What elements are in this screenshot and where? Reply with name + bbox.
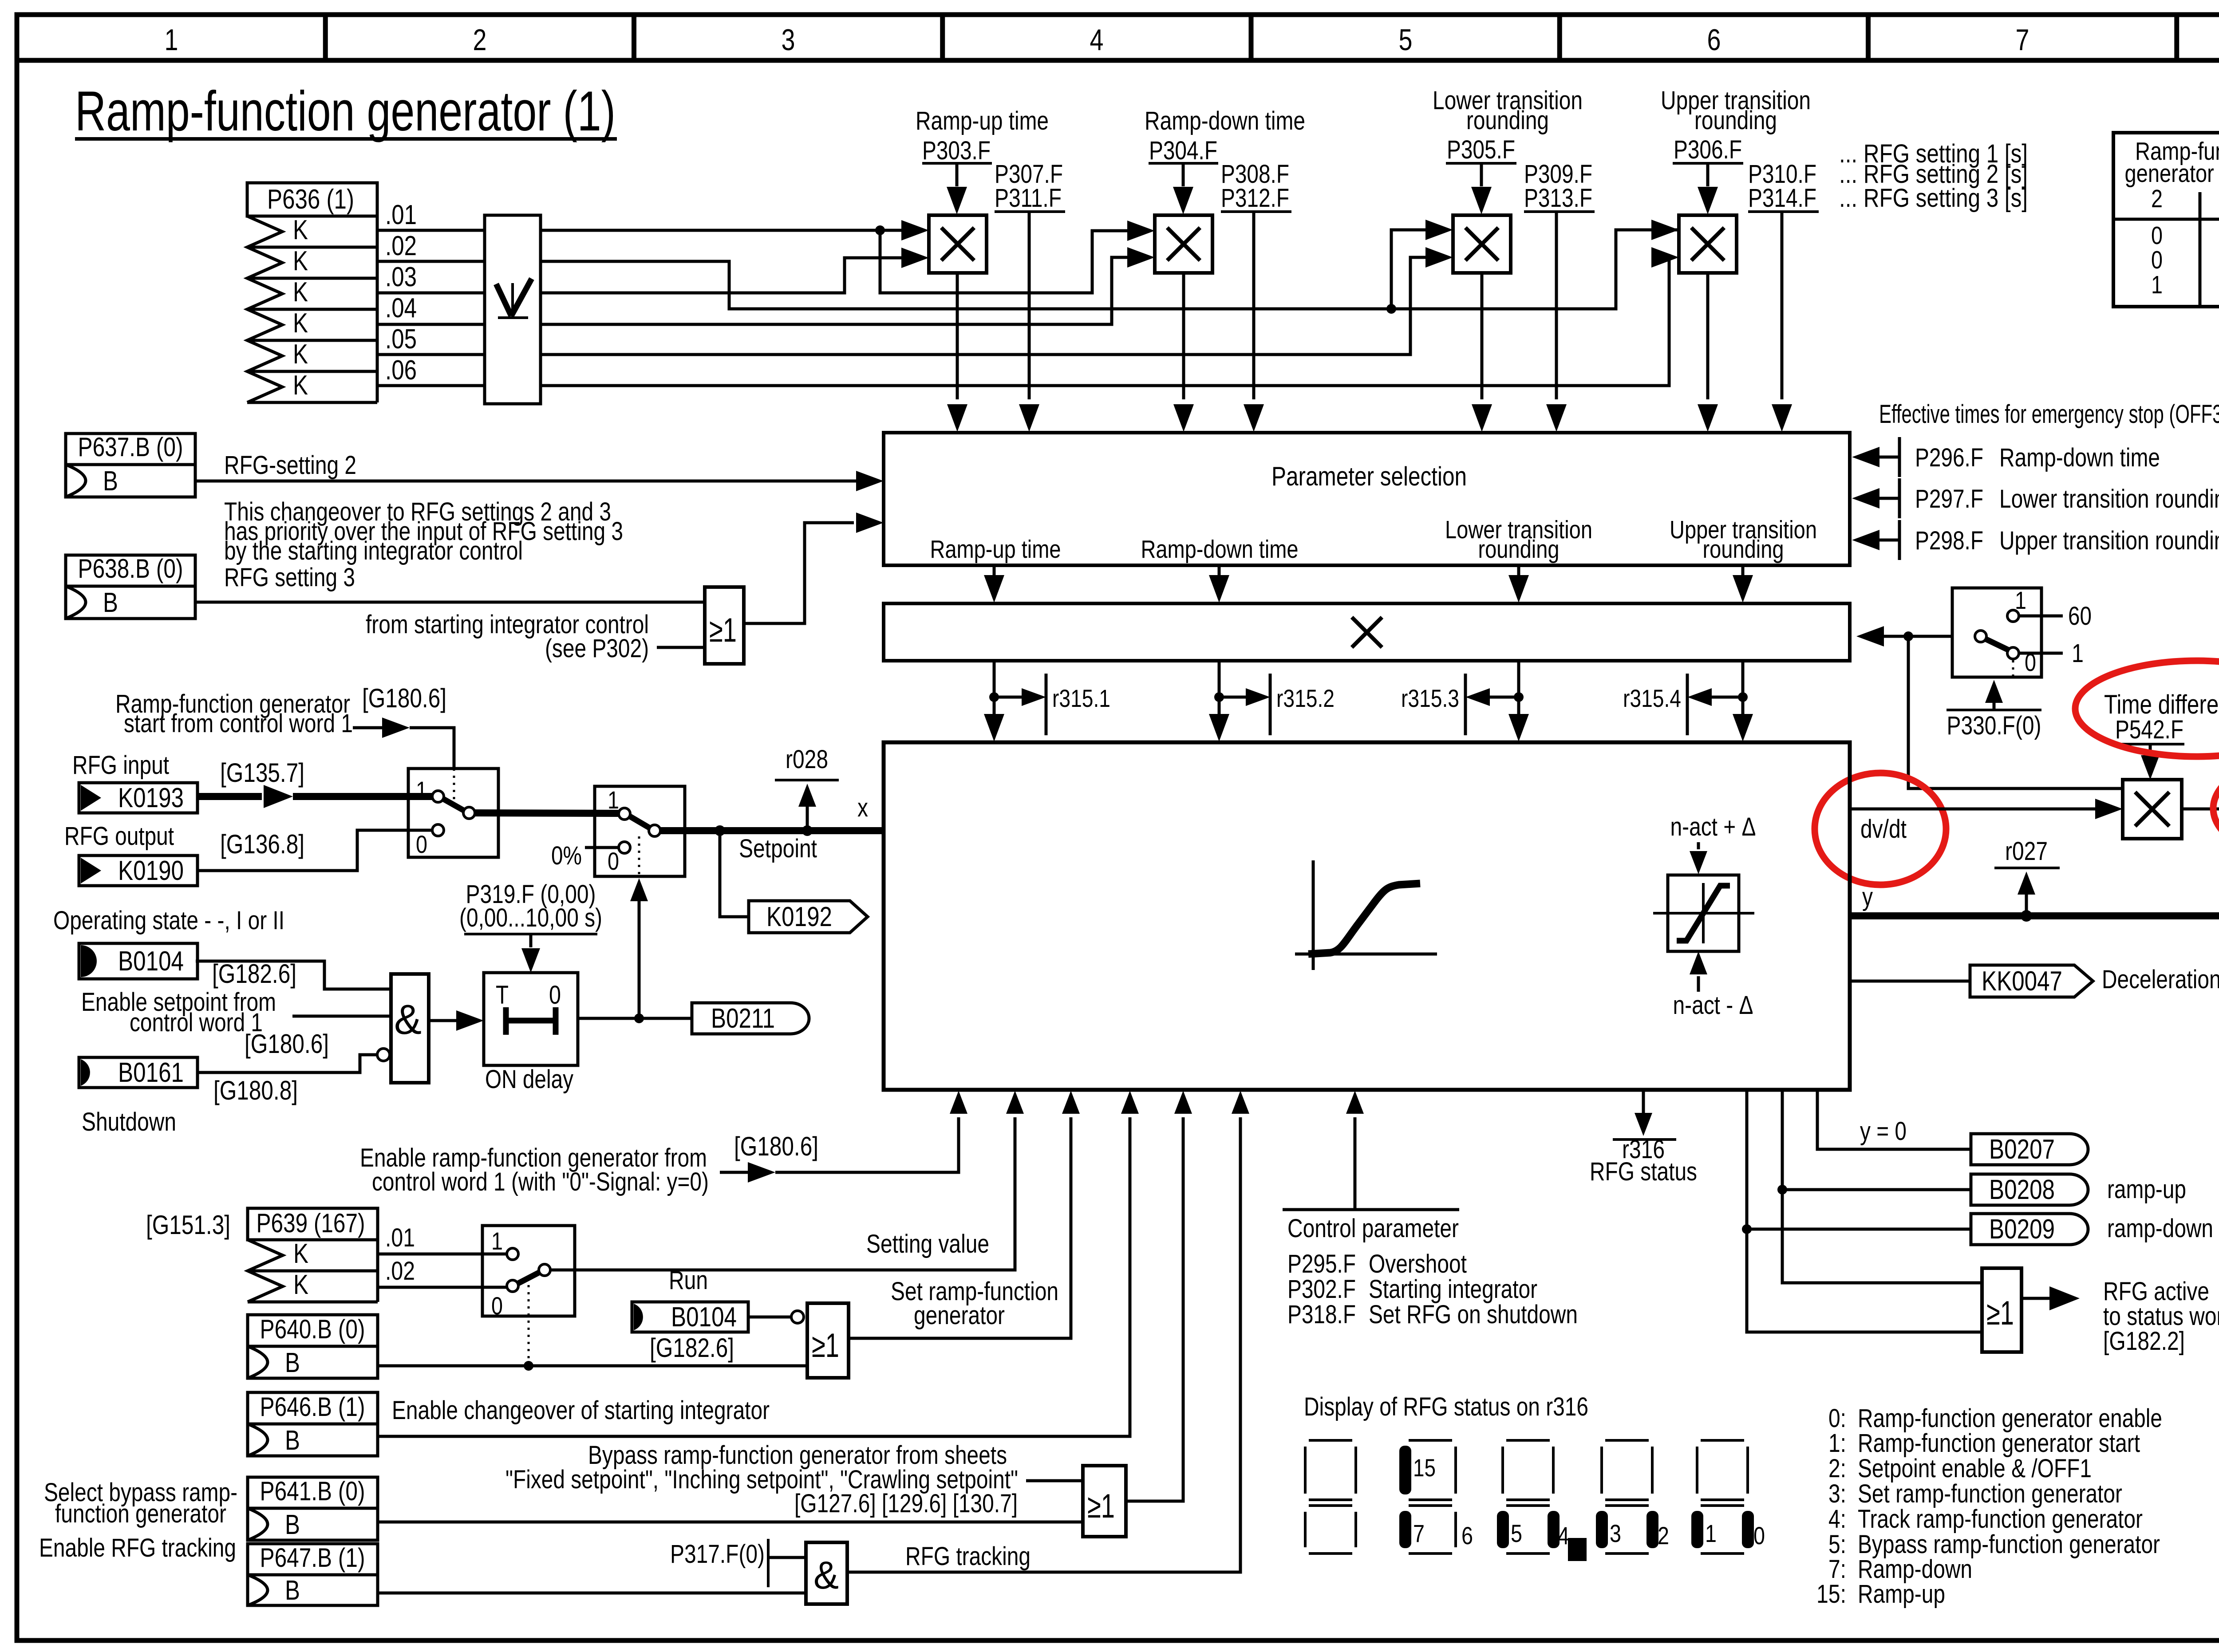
svg-text:generator: generator bbox=[914, 1301, 1005, 1330]
switch P330 time base bbox=[1952, 586, 2092, 677]
svg-text:Ramp-function generator start: Ramp-function generator start bbox=[1858, 1429, 2140, 1458]
svg-text:B0208: B0208 bbox=[1989, 1175, 2055, 1205]
svg-text:1: 1 bbox=[608, 786, 619, 814]
wire P639.01 to switch3 bbox=[378, 1253, 507, 1256]
svg-text:6: 6 bbox=[1461, 1522, 1473, 1549]
label RFG start from control word 1 bbox=[115, 690, 353, 738]
svg-text:Set ramp-function generator: Set ramp-function generator bbox=[1858, 1479, 2122, 1508]
svg-text:2: 2 bbox=[473, 23, 487, 57]
OR gate RFG active bbox=[1982, 1268, 2022, 1352]
svg-text:Ramp-up time: Ramp-up time bbox=[930, 535, 1061, 564]
input connector K0193 bbox=[79, 783, 197, 813]
svg-text:P317.F(0): P317.F(0) bbox=[670, 1540, 765, 1569]
label G151.3 bbox=[146, 1210, 230, 1240]
output connector KK0047 bbox=[1970, 965, 2093, 997]
output connector B0211 bbox=[692, 1003, 809, 1034]
svg-text:RFG-setting 2: RFG-setting 2 bbox=[224, 451, 356, 480]
svg-text:n-act - Δ: n-act - Δ bbox=[1673, 991, 1753, 1020]
svg-text:generator setting: generator setting bbox=[2125, 159, 2219, 188]
svg-text:B0161: B0161 bbox=[118, 1057, 184, 1088]
connector P641.B bbox=[248, 1476, 378, 1540]
svg-text:1: 1 bbox=[416, 776, 427, 804]
svg-text:7: 7 bbox=[2016, 23, 2029, 57]
wire .02 to mult3 and mult4 bbox=[541, 220, 1679, 314]
svg-text:start from control word 1: start from control word 1 bbox=[124, 709, 353, 738]
svg-text:60: 60 bbox=[2068, 602, 2092, 631]
output connector K0192 bbox=[749, 901, 868, 933]
svg-text:P298.F: P298.F bbox=[1915, 526, 1983, 555]
svg-text:Setpoint enable & /OFF1: Setpoint enable & /OFF1 bbox=[1858, 1454, 2092, 1483]
input connector B0104 bbox=[79, 943, 197, 979]
wire B0104 to AND bbox=[196, 961, 391, 989]
svg-text:RFG output: RFG output bbox=[64, 822, 174, 851]
svg-text:K: K bbox=[293, 308, 308, 339]
svg-text:Parameter selection: Parameter selection bbox=[1271, 461, 1467, 491]
parameters P310.F P314.F bbox=[1748, 160, 1819, 432]
wire RFG active output bbox=[2022, 1286, 2080, 1310]
column numbers bbox=[165, 23, 2219, 57]
label Enable RFG tracking bbox=[39, 1534, 236, 1562]
svg-text:1: 1 bbox=[2151, 271, 2163, 299]
switch1 RFG start bbox=[408, 769, 498, 858]
svg-text:P639 (167): P639 (167) bbox=[257, 1208, 365, 1238]
svg-text:&: & bbox=[813, 1553, 839, 1597]
label G180.8 bbox=[213, 1076, 298, 1105]
svg-text:B0209: B0209 bbox=[1989, 1214, 2055, 1245]
svg-text:K: K bbox=[293, 339, 308, 370]
label Setting value bbox=[866, 1230, 989, 1258]
label RFG active bbox=[2103, 1277, 2219, 1356]
wire switch1 to switch2 thick bbox=[475, 813, 619, 813]
svg-text:5: 5 bbox=[1399, 23, 1413, 57]
input connector K0190 bbox=[79, 856, 197, 886]
svg-text:[G127.6] [129.6] [130.7]: [G127.6] [129.6] [130.7] bbox=[794, 1489, 1018, 1518]
multiplier mult1 bbox=[929, 215, 987, 273]
wire control parameter to block bbox=[1346, 1091, 1364, 1210]
note changeover priority bbox=[224, 497, 623, 565]
svg-text:P646.B (1): P646.B (1) bbox=[260, 1392, 365, 1422]
svg-text:2: 2 bbox=[1658, 1522, 1669, 1549]
svg-text:Time difference [s]: Time difference [s] bbox=[2104, 690, 2219, 719]
svg-text:rounding: rounding bbox=[1694, 106, 1777, 135]
svg-text:K: K bbox=[293, 277, 308, 308]
title Ramp-function generator (1) bbox=[75, 79, 617, 142]
parameter P305.F bbox=[1446, 135, 1516, 214]
red ellipse dv/dt bbox=[1815, 773, 1946, 885]
label G182.6 bottom bbox=[650, 1333, 734, 1363]
wire .06 to mult4 input 2 bbox=[541, 247, 1679, 386]
label Ramp-down time bbox=[1145, 106, 1305, 135]
svg-text:0: 0 bbox=[608, 847, 619, 875]
label Setpoint bbox=[739, 834, 817, 863]
svg-text:y: y bbox=[1862, 883, 1873, 911]
svg-text:Ramp-function generator (1): Ramp-function generator (1) bbox=[75, 79, 616, 142]
seven-segment status cells upper bbox=[1305, 1440, 1748, 1500]
label Shutdown bbox=[82, 1108, 176, 1136]
svg-text:P295.F: P295.F bbox=[1287, 1250, 1356, 1278]
wire B0104 to OR set inverted bbox=[748, 1311, 804, 1323]
svg-text:RFG tracking: RFG tracking bbox=[905, 1542, 1031, 1571]
svg-text:B0104: B0104 bbox=[118, 946, 184, 977]
svg-text:B0207: B0207 bbox=[1989, 1134, 2055, 1165]
svg-text:rounding: rounding bbox=[1703, 535, 1784, 564]
multiplier dv/dt x time bbox=[2123, 780, 2182, 839]
wire enable changeover to block bbox=[378, 1091, 1139, 1436]
svg-text:K: K bbox=[293, 1238, 308, 1269]
label ramp-down bbox=[2107, 1214, 2213, 1243]
minimum-selection block bbox=[485, 215, 541, 404]
svg-text:KK0047: KK0047 bbox=[1982, 966, 2062, 997]
svg-text:3:: 3: bbox=[1828, 1479, 1846, 1508]
wire bypass quoted to OR bbox=[1026, 1479, 1083, 1482]
svg-text:Control parameter: Control parameter bbox=[1287, 1214, 1459, 1243]
svg-text:[G180.6]: [G180.6] bbox=[734, 1132, 818, 1161]
svg-text:r027: r027 bbox=[2005, 837, 2048, 866]
label enable RFG from control word 1 bbox=[360, 1143, 709, 1196]
label Upper transition rounding bbox=[1661, 86, 1811, 135]
label RFG tracking bbox=[905, 1542, 1031, 1571]
wire .01 to mult1 and mult2 bbox=[541, 220, 1155, 293]
svg-text:1: 1 bbox=[1705, 1519, 1717, 1547]
svg-text:control word 1: control word 1 bbox=[130, 1008, 263, 1037]
label Enable setpoint from control word 1 bbox=[81, 988, 276, 1037]
parameter P306.F bbox=[1673, 135, 1743, 214]
display r028 bbox=[775, 745, 839, 831]
wire ramp-down to B0209 and OR bbox=[1742, 1090, 1982, 1332]
input connector B0104 run bbox=[632, 1302, 748, 1333]
svg-text:rounding: rounding bbox=[1478, 535, 1560, 564]
seven-segment status cells lower bbox=[1305, 1506, 1765, 1561]
label ON delay bbox=[485, 1065, 573, 1094]
svg-text:P647.B (1): P647.B (1) bbox=[260, 1543, 365, 1573]
wire setting value to block bbox=[551, 1091, 1024, 1270]
svg-text:15: 15 bbox=[1413, 1454, 1436, 1482]
label RFG input bbox=[72, 751, 169, 780]
svg-text:x: x bbox=[857, 793, 868, 822]
wire switch branch to dv-dt multiplier bbox=[1908, 636, 2123, 789]
parameters P307.F P311.F bbox=[995, 160, 1065, 432]
label Ramp-up time bbox=[916, 106, 1049, 135]
connector P646.B bbox=[248, 1392, 378, 1456]
svg-text:B0104: B0104 bbox=[671, 1302, 737, 1333]
wire switch to multiplier bus bbox=[1856, 626, 1952, 647]
connector P637.B bbox=[66, 432, 195, 497]
svg-text:B: B bbox=[285, 1575, 300, 1606]
svg-text:K0190: K0190 bbox=[118, 856, 184, 886]
wire mult1 output bbox=[947, 273, 967, 432]
svg-text:P311.F: P311.F bbox=[995, 184, 1062, 213]
svg-text:Ramp-down time: Ramp-down time bbox=[1145, 106, 1305, 135]
svg-text:Overshoot: Overshoot bbox=[1369, 1250, 1467, 1278]
svg-text:P305.F: P305.F bbox=[1447, 135, 1515, 164]
connector P647.B bbox=[248, 1543, 378, 1606]
label G136.8 bbox=[220, 829, 304, 859]
wire mult3 output bbox=[1472, 273, 1492, 432]
svg-text:Operating state - -, I or II: Operating state - -, I or II bbox=[53, 906, 284, 935]
svg-text:[G135.7]: [G135.7] bbox=[220, 758, 304, 788]
label effective times OFF3 bbox=[1879, 400, 2219, 429]
label G135.7 bbox=[220, 758, 304, 788]
svg-text:Ramp-up: Ramp-up bbox=[1858, 1580, 1945, 1609]
svg-text:[G180.6]: [G180.6] bbox=[245, 1029, 329, 1059]
connector P640.B bbox=[248, 1314, 378, 1378]
wire ON delay to B0211 and switch2 bbox=[578, 878, 692, 1023]
svg-text:P303.F: P303.F bbox=[922, 136, 991, 165]
svg-text:0%: 0% bbox=[551, 841, 582, 870]
svg-text:[G180.6]: [G180.6] bbox=[362, 683, 446, 713]
svg-text:P296.F: P296.F bbox=[1915, 443, 1983, 472]
svg-text:≥1: ≥1 bbox=[1087, 1487, 1115, 1525]
svg-text:K: K bbox=[293, 370, 308, 401]
label G180.6 top bbox=[362, 683, 446, 713]
svg-text:(see P302): (see P302) bbox=[545, 634, 649, 663]
wires parameter selection outputs bbox=[984, 565, 1753, 603]
svg-text:P636 (1): P636 (1) bbox=[267, 184, 354, 215]
label 0 percent bbox=[551, 841, 619, 870]
label Enable changeover of starting integrator bbox=[392, 1396, 770, 1425]
svg-text:[G182.2]: [G182.2] bbox=[2103, 1327, 2185, 1356]
note Time difference bbox=[2104, 690, 2219, 744]
svg-text:[G182.6]: [G182.6] bbox=[650, 1333, 734, 1363]
multiplier mult2 bbox=[1155, 215, 1212, 273]
label ramp-up bbox=[2107, 1175, 2186, 1204]
output connector B0207 bbox=[1971, 1134, 2088, 1165]
svg-text:Ramp-down time: Ramp-down time bbox=[1141, 535, 1299, 564]
svg-text:Setting value: Setting value bbox=[866, 1230, 989, 1258]
svg-text:3: 3 bbox=[1610, 1519, 1621, 1547]
svg-text:[G180.8]: [G180.8] bbox=[213, 1076, 298, 1105]
svg-text:K: K bbox=[293, 246, 308, 276]
svg-text:1: 1 bbox=[165, 23, 178, 57]
wire dv/dt to multiplier bbox=[1850, 799, 2123, 819]
svg-text:B: B bbox=[285, 1510, 300, 1540]
label Operating state bbox=[53, 906, 284, 935]
wire P647 to AND tracking bbox=[378, 1592, 806, 1595]
label Set ramp-function generator bbox=[891, 1277, 1058, 1330]
limiter block bbox=[1653, 875, 1754, 951]
switch3 setting value select bbox=[482, 1226, 575, 1366]
OR gate bypass bbox=[1083, 1466, 1126, 1537]
svg-text:4: 4 bbox=[1090, 23, 1104, 57]
svg-text:6: 6 bbox=[1707, 23, 1721, 57]
svg-text:1: 1 bbox=[491, 1227, 503, 1255]
label Lower transition rounding bbox=[1433, 86, 1583, 135]
svg-text:Display of RFG status on r316: Display of RFG status on r316 bbox=[1304, 1392, 1588, 1421]
main ramp-function generator block bbox=[884, 742, 1850, 1090]
svg-text:0: 0 bbox=[2151, 246, 2163, 274]
parameters P308.F P312.F bbox=[1221, 160, 1291, 432]
svg-text:P297.F: P297.F bbox=[1915, 485, 1983, 513]
wire enable to block bbox=[720, 1091, 967, 1183]
wire P640 to OR set bbox=[378, 1361, 807, 1371]
svg-text:rounding: rounding bbox=[1466, 106, 1549, 135]
svg-text:P318.F: P318.F bbox=[1287, 1300, 1356, 1329]
svg-text:0: 0 bbox=[1753, 1522, 1765, 1549]
svg-text:.03: .03 bbox=[385, 262, 417, 292]
svg-text:Enable RFG tracking: Enable RFG tracking bbox=[39, 1534, 236, 1562]
list control parameters bbox=[1287, 1250, 1578, 1329]
display r027 bbox=[1994, 837, 2060, 916]
svg-text:B: B bbox=[103, 466, 118, 497]
AND gate setpoint enable bbox=[391, 974, 429, 1083]
svg-text:B: B bbox=[285, 1348, 300, 1378]
control parameter bracket bbox=[1283, 1210, 1459, 1243]
output connector B0208 bbox=[1971, 1174, 2088, 1205]
ramp curve symbol bbox=[1295, 860, 1437, 970]
svg-text:dv/dt: dv/dt bbox=[1860, 815, 1907, 844]
wire RFG tracking to block bbox=[847, 1091, 1249, 1572]
table effective parameters bbox=[2113, 133, 2219, 307]
connector P638.B bbox=[66, 554, 195, 619]
svg-text:0: 0 bbox=[416, 830, 427, 858]
svg-text:Track ramp-function generator: Track ramp-function generator bbox=[1858, 1505, 2143, 1534]
wire P641 to OR bypass bbox=[378, 1521, 1083, 1524]
svg-text:... RFG setting 3 [s]: ... RFG setting 3 [s] bbox=[1839, 184, 2028, 213]
AND gate tracking bbox=[806, 1542, 847, 1604]
wire P637 to parameter selection bbox=[195, 471, 884, 491]
svg-text:P638.B (0): P638.B (0) bbox=[78, 554, 183, 584]
svg-text:B0211: B0211 bbox=[711, 1003, 775, 1034]
wire K0193 thick to switch1 bbox=[197, 785, 432, 808]
ON delay block bbox=[484, 973, 578, 1065]
label bypass from sheets bbox=[505, 1441, 1018, 1518]
wire y output thick bbox=[1850, 910, 2219, 922]
svg-text:P313.F: P313.F bbox=[1524, 184, 1592, 213]
input connector B0161 bbox=[79, 1057, 197, 1088]
label RFG output bbox=[64, 822, 174, 851]
svg-text:P314.F: P314.F bbox=[1748, 184, 1816, 213]
svg-text:[G136.8]: [G136.8] bbox=[220, 829, 304, 859]
label Deceleration distance bbox=[2102, 965, 2219, 994]
svg-text:.01: .01 bbox=[385, 1223, 415, 1252]
svg-text:r315.4: r315.4 bbox=[1623, 684, 1681, 712]
label y bbox=[1862, 883, 1873, 911]
svg-text:Lower transition rounding: Lower transition rounding bbox=[1999, 485, 2219, 513]
wire ramp-up to B0208 and OR bbox=[1777, 1090, 1982, 1283]
svg-text:2: 2 bbox=[2151, 185, 2163, 213]
svg-text:0: 0 bbox=[491, 1292, 503, 1320]
svg-text:P637.B (0): P637.B (0) bbox=[78, 432, 183, 462]
svg-text:r315.2: r315.2 bbox=[1276, 684, 1335, 712]
label n-act minus delta bbox=[1673, 951, 1753, 1020]
svg-text:.02: .02 bbox=[385, 231, 417, 261]
wire set-RFG to block bbox=[849, 1091, 1080, 1338]
parameter P297.F lower transition rounding bbox=[1852, 478, 2219, 518]
svg-text:n-act + Δ: n-act + Δ bbox=[1670, 812, 1756, 841]
svg-text:B: B bbox=[103, 587, 118, 618]
multiplier mult4 bbox=[1679, 215, 1737, 273]
svg-text:RFG input: RFG input bbox=[72, 751, 169, 780]
connector P636 bbox=[247, 183, 377, 402]
wire B0161 to AND inverted bbox=[197, 1049, 390, 1072]
red ellipse K0191 bbox=[2213, 749, 2219, 868]
svg-text:Run: Run bbox=[669, 1266, 708, 1295]
svg-text:Starting integrator: Starting integrator bbox=[1369, 1275, 1537, 1304]
svg-text:K: K bbox=[293, 1270, 308, 1300]
label G182.6 left bbox=[212, 959, 296, 989]
svg-text:Effective times for emergency: Effective times for emergency stop (OFF3… bbox=[1879, 400, 2219, 429]
svg-text:Setpoint: Setpoint bbox=[739, 834, 817, 863]
wire P542 to multiplier bbox=[2141, 744, 2160, 780]
connector P639 bbox=[248, 1208, 378, 1302]
svg-text:K0193: K0193 bbox=[118, 783, 184, 813]
svg-text:Shutdown: Shutdown bbox=[82, 1108, 176, 1136]
display r316 bbox=[1590, 1090, 1697, 1186]
svg-text:P330.F(0): P330.F(0) bbox=[1947, 711, 2041, 740]
svg-text:.01: .01 bbox=[385, 200, 417, 230]
svg-text:y = 0: y = 0 bbox=[1860, 1117, 1907, 1146]
svg-text:3: 3 bbox=[782, 23, 795, 57]
wires P636 to selector bbox=[377, 230, 485, 386]
parameter P298.F upper transition rounding bbox=[1852, 520, 2219, 560]
parameter P330.F(0) bbox=[1947, 680, 2041, 740]
svg-text:RFG setting 3: RFG setting 3 bbox=[224, 563, 355, 592]
svg-text:Upper transition rounding: Upper transition rounding bbox=[1999, 526, 2219, 555]
svg-text:[G151.3]: [G151.3] bbox=[146, 1210, 230, 1240]
svg-text:1:: 1: bbox=[1828, 1429, 1846, 1458]
switch2 setpoint enable bbox=[595, 786, 685, 876]
label from starting integrator control bbox=[366, 610, 649, 663]
svg-text:RFG status: RFG status bbox=[1590, 1157, 1697, 1186]
svg-text:4: 4 bbox=[1558, 1522, 1569, 1549]
svg-text:7: 7 bbox=[1413, 1519, 1425, 1547]
OR gate set RFG bbox=[807, 1303, 849, 1378]
wire KK0047 bbox=[1850, 980, 1970, 983]
svg-text:P640.B (0): P640.B (0) bbox=[260, 1314, 365, 1344]
svg-text:ramp-up: ramp-up bbox=[2107, 1175, 2186, 1204]
wire bypass to block bbox=[1126, 1091, 1192, 1501]
label Run bbox=[669, 1266, 708, 1295]
list RFG status bits bbox=[1816, 1404, 2162, 1609]
svg-text:Set RFG on shutdown: Set RFG on shutdown bbox=[1369, 1300, 1578, 1329]
svg-text:[G182.6]: [G182.6] bbox=[212, 959, 296, 989]
svg-text:by the starting integrator con: by the starting integrator control bbox=[224, 536, 523, 565]
wire setpoint x thick bbox=[660, 793, 884, 836]
svg-text:r315.1: r315.1 bbox=[1052, 684, 1110, 712]
svg-text:≥1: ≥1 bbox=[1986, 1294, 2014, 1332]
parameter P304.F bbox=[1149, 136, 1218, 214]
wire P638 to OR gate bbox=[195, 601, 705, 604]
wire enable setpoint to AND bbox=[292, 1015, 391, 1018]
label n-act plus delta bbox=[1670, 812, 1756, 874]
wire .05 to mult3 input 2 bbox=[541, 247, 1453, 355]
svg-text:K0192: K0192 bbox=[766, 902, 832, 932]
svg-text:(0,00...10,00 s): (0,00...10,00 s) bbox=[459, 903, 602, 932]
svg-text:1: 1 bbox=[2072, 639, 2084, 668]
label Select bypass RFG bbox=[44, 1478, 237, 1528]
wire mult2 output bbox=[1173, 273, 1194, 432]
svg-text:B: B bbox=[285, 1425, 300, 1456]
svg-text:Deceleration distance: Deceleration distance bbox=[2102, 965, 2219, 994]
svg-text:5: 5 bbox=[1511, 1519, 1522, 1547]
wire dv/dt output to K0191 bbox=[2182, 808, 2219, 811]
wire to K0192 bbox=[720, 831, 749, 917]
svg-text:ON delay: ON delay bbox=[485, 1065, 573, 1094]
svg-text:ramp-down: ramp-down bbox=[2107, 1214, 2213, 1243]
svg-text:Ramp-down time: Ramp-down time bbox=[1999, 443, 2160, 472]
labels RFG setting 1 2 3 bbox=[1839, 139, 2028, 213]
svg-text:P302.F: P302.F bbox=[1287, 1275, 1356, 1304]
svg-text:0: 0 bbox=[549, 981, 561, 1009]
wires r315 display taps bbox=[984, 661, 1753, 741]
svg-text:P641.B (0): P641.B (0) bbox=[260, 1476, 365, 1506]
output connector B0209 bbox=[1971, 1214, 2088, 1245]
wire y=0 to B0207 bbox=[1817, 1090, 1971, 1149]
wire mult4 output bbox=[1698, 273, 1718, 432]
P639 index labels bbox=[385, 1223, 415, 1285]
svg-text:.04: .04 bbox=[385, 293, 417, 323]
label dv/dt bbox=[1860, 815, 1907, 844]
